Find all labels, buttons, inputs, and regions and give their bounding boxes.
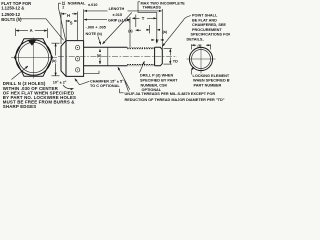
svg-text:NOTE (b): NOTE (b) <box>86 32 103 36</box>
svg-text:A: A <box>30 28 33 33</box>
point outline <box>155 47 163 66</box>
svg-text:REDUCTION OF THREAD MAJOR DIAM: REDUCTION OF THREAD MAJOR DIAMETER PER "… <box>125 98 225 102</box>
dark crown triangle <box>28 40 37 46</box>
small dim ticks mid <box>146 25 160 34</box>
dimension A <box>16 28 48 38</box>
hex corner line side view <box>65 41 67 77</box>
svg-text:PART NUMBER: PART NUMBER <box>194 84 222 88</box>
lockwire hole 1 <box>75 45 79 49</box>
svg-text:SPECIFICATIONS FOR: SPECIFICATIONS FOR <box>191 33 231 37</box>
svg-text:(b): (b) <box>52 59 56 63</box>
vertical centerline front view <box>33 38 35 79</box>
svg-text:SHARP EDGES: SHARP EDGES <box>3 104 37 109</box>
svg-text:THREADS: THREADS <box>143 6 162 10</box>
dimension LENGTH <box>84 7 162 17</box>
leader from DRILL N note to hex flat <box>12 66 29 80</box>
inscribed circle <box>16 40 52 76</box>
svg-text:BE FLAT AND: BE FLAT AND <box>192 18 217 22</box>
extension tick thread dims <box>135 15 137 28</box>
leader UNJF note <box>118 67 130 89</box>
thread crest dotted top <box>127 48 154 50</box>
svg-text:TO C OPTIONAL: TO C OPTIONAL <box>90 84 120 88</box>
long diagonal leader <box>103 13 132 45</box>
svg-text:TD: TD <box>173 59 178 63</box>
dimension T <box>132 16 156 21</box>
hex head front view hexagon <box>15 39 53 77</box>
svg-text:LENGTH: LENGTH <box>109 7 125 11</box>
dimension (a) thread label left <box>128 29 141 33</box>
leader 10 deg <box>63 85 74 89</box>
thread crest dotted bottom <box>127 64 154 66</box>
svg-text:NOMINAL: NOMINAL <box>68 2 86 6</box>
svg-text:±.010: ±.010 <box>88 3 97 7</box>
extension line grip end <box>129 17 131 47</box>
bracket UNJF note <box>120 89 124 93</box>
washer face circle <box>18 42 48 72</box>
note drill N lockwire holes text block <box>3 81 76 109</box>
bolt axis centerline <box>58 56 177 58</box>
svg-text:10° ± 2°: 10° ± 2° <box>53 81 67 85</box>
svg-text:MAX TWO INCOMPLETE: MAX TWO INCOMPLETE <box>141 1 186 5</box>
svg-text:±.015: ±.015 <box>113 13 122 17</box>
svg-text:CHAMFERED, SEE: CHAMFERED, SEE <box>192 23 226 27</box>
svg-text:U: U <box>156 39 159 43</box>
dimension S <box>66 20 77 40</box>
extension line bearing face <box>83 9 85 40</box>
leader from BOLTS (h) to head crown <box>20 19 64 40</box>
note H/2 NOMINAL <box>62 1 98 10</box>
extension line point face <box>161 9 163 49</box>
leader point note to point chamfer <box>163 16 191 47</box>
svg-text:H: H <box>67 13 70 18</box>
end view vertical centerline <box>200 45 202 74</box>
washer face dim line under shank <box>84 71 99 74</box>
svg-text:2: 2 <box>62 5 64 9</box>
dimension (f) <box>191 44 210 50</box>
svg-text:CHAMFER 15° ± 5°: CHAMFER 15° ± 5° <box>90 80 124 84</box>
note chamfer to C <box>90 80 124 89</box>
svg-text:DETAILS,: DETAILS, <box>187 37 204 41</box>
note point shall be flat <box>187 14 232 42</box>
grip boundary line <box>107 47 109 66</box>
end view outer circle <box>189 47 212 70</box>
note flat top text block <box>1 1 31 22</box>
hex head side view outline <box>61 41 84 77</box>
leader chamfer note <box>75 79 90 85</box>
leader drill P <box>140 61 145 73</box>
thread zone bottom faint solid <box>127 65 154 67</box>
svg-text:WHEN SPECIFIED BY: WHEN SPECIFIED BY <box>193 79 230 83</box>
thread zone top faint solid <box>127 46 154 48</box>
svg-text:PROCUREMENT: PROCUREMENT <box>192 28 222 32</box>
svg-text:DRILL P (d) WHEN: DRILL P (d) WHEN <box>140 74 173 78</box>
lockwire hole 2 <box>75 57 79 61</box>
svg-text:BOLTS (h): BOLTS (h) <box>1 17 22 22</box>
svg-text:LOCKING ELEMENT: LOCKING ELEMENT <box>193 74 230 78</box>
svg-text:NUMBER, CSK: NUMBER, CSK <box>141 83 168 87</box>
svg-text:T: T <box>142 16 145 21</box>
note UNJF threads <box>125 92 225 102</box>
horizontal centerline front view <box>11 57 57 59</box>
svg-text:UNJF-3A THREADS PER MIL-S-8879: UNJF-3A THREADS PER MIL-S-8879 EXCEPT FO… <box>125 92 216 96</box>
leader chamfer diag <box>125 81 129 92</box>
thread end line <box>154 47 156 66</box>
svg-text:S: S <box>70 21 73 26</box>
lockwire hole 3 <box>75 68 79 72</box>
end view inner circle <box>192 50 211 69</box>
leader H/2 to crown <box>59 3 66 40</box>
dimension H <box>61 12 78 45</box>
note locking element <box>193 74 233 88</box>
svg-text:1.1250-12 &: 1.1250-12 & <box>1 6 24 11</box>
dimension (a) shank diameter <box>97 49 102 64</box>
shank top line <box>84 46 128 48</box>
svg-text:POINT SHALL: POINT SHALL <box>192 14 218 18</box>
dimension (b) bracket right of hexagon <box>52 43 60 76</box>
leader max two incomplete threads <box>138 2 157 44</box>
dimension TD <box>164 49 179 65</box>
note drill P <box>140 74 178 93</box>
svg-text:GRIP (±1/64): GRIP (±1/64) <box>108 18 131 22</box>
dimension GRIP <box>84 18 131 22</box>
leader note (b) <box>98 37 101 45</box>
leader locking element <box>191 67 194 75</box>
shank bottom line <box>84 65 128 67</box>
end view horizontal centerline <box>187 58 216 60</box>
dimension U <box>151 39 162 43</box>
svg-text:SPECIFIED BY PART: SPECIFIED BY PART <box>140 78 178 82</box>
note max two incomplete threads <box>141 1 186 9</box>
svg-text:-.000 + .005: -.000 + .005 <box>86 26 106 30</box>
